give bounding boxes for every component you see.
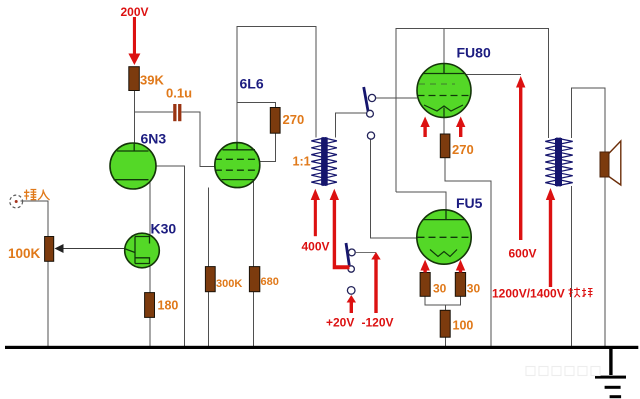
resistor R6 270 right [440,134,450,158]
svg-text:100K: 100K [8,246,41,261]
svg-text:39K: 39K [140,73,164,88]
label FU5 [456,195,483,211]
transformer T1 1:1 interstage [311,138,337,186]
input jack J1 [10,195,23,208]
switch S2 pole contact [348,266,354,272]
svg-text:K30: K30 [151,221,177,237]
resistor R8 30 right [455,273,465,297]
power arrow 400V right with red link to S2 [330,189,350,269]
power arrow 400V left [311,189,320,236]
tube V3 FU80 [417,64,471,118]
label 270 left [283,112,305,127]
resistor R9 100 [440,310,450,337]
label 30 left [433,282,447,296]
resistor R2 180 [145,293,155,318]
capacitor C1 0.1u [173,104,181,121]
label 270 right [452,142,474,157]
wire: transformer T1 secondary to switch S1 [335,113,367,138]
label 6N3 [141,131,167,147]
svg-text:100: 100 [453,319,474,333]
heater arrow FU80 left [420,117,429,138]
label 100K [8,246,41,261]
wire: 6N3 right lead down to bus [156,166,185,346]
svg-text:6L6: 6L6 [240,76,264,92]
svg-text:400V: 400V [302,240,330,254]
switch S1 top contact [368,94,375,101]
wire: rail branch to FU80 top cap [443,29,445,65]
wire: S2 contact to -120V arrow [355,251,375,253]
svg-text:200V: 200V [121,5,149,19]
switch S2 top contact [348,249,355,256]
wire: output transformer right bottom to bus [571,186,573,346]
svg-text:FU5: FU5 [456,195,483,211]
power arrow -120V [371,252,380,313]
svg-text:270: 270 [452,142,474,157]
wire: output transformer secondary to speaker and bus [572,88,605,346]
svg-text:0.1u: 0.1u [166,86,192,101]
label 1:1 [293,155,311,169]
label 39K [140,73,164,88]
label 30 right [467,282,481,296]
ground [595,349,626,398]
label 400V [302,240,330,254]
potentiometer RP1 100K [45,237,64,262]
label 600V [509,247,537,261]
svg-text:180: 180 [158,299,179,313]
svg-text:FU80: FU80 [457,45,491,61]
label 100 [453,319,474,333]
svg-text:30: 30 [467,282,481,296]
label 0.1u [166,86,192,101]
wire: FU5 cathode resistors junction [425,296,460,346]
switch S1 lower open contact [367,132,374,139]
label 180 [158,299,179,313]
wire: K30 source to 180 resistor and bus [149,265,151,346]
heater arrow FU5 right [456,260,465,273]
tube V1 6N3 [110,143,156,189]
svg-text:600V: 600V [509,247,537,261]
label 1200V/1400V转换 [492,287,593,301]
power arrow +20V [347,295,356,313]
svg-text:-120V: -120V [362,316,394,330]
label -120V [362,316,394,330]
wire: rail to FU5 top cap [396,192,446,209]
resistor R5 270 left [270,108,280,134]
switch S2 lower open contact [347,287,355,295]
label +20V [326,316,354,330]
ground bus wire [5,346,638,349]
power arrow 1200V/1400V [546,188,555,287]
wire: FU80 filament to 270 resistor (right) [443,110,445,134]
resistor R4 680 [249,267,259,292]
tube V2 6L6 [215,143,260,188]
svg-text:6N3: 6N3 [141,131,167,147]
power arrow 200V [128,17,140,65]
wire: plate node to coupling capacitor C1 [134,111,173,113]
label 300K [216,278,242,290]
wire: 100K pot bottom to ground bus [47,261,49,346]
wire: top right rail [396,29,548,193]
label K30 [151,221,177,237]
heater arrow FU5 left [420,260,429,273]
label FU80 [457,45,491,61]
wire: 300K resistor line to bus [208,188,210,346]
svg-text:300K: 300K [216,278,242,290]
wire: FU80 plate to 600V node [465,74,522,76]
speaker SP1 [600,141,621,185]
svg-text:1200V/1400V: 1200V/1400V [492,287,565,301]
svg-text:680: 680 [261,276,279,288]
svg-text:270: 270 [283,112,305,127]
tube V4 FU5 [417,209,471,264]
resistor R7 30 left [420,273,430,297]
label 200V [121,5,149,19]
svg-text:30: 30 [433,282,447,296]
wire: 6L6 plate top rail to interstage transformer [237,27,316,143]
wire: input jack to 100K pot top [21,201,49,237]
resistor R3 300K [205,267,215,292]
switch S1 pole contact [367,110,374,117]
switch S1 lever [364,87,369,113]
label 6L6 [240,76,264,92]
wire: plate branch to 270 resistor (left) [237,102,276,107]
label 输入 (input) [24,190,50,200]
wire: 270 (left) bottom to 6L6 screen grid [260,133,276,161]
svg-text:+20V: +20V [326,316,354,330]
transistor Q1 K30 [125,233,160,268]
heater arrow FU80 right [456,117,465,138]
svg-text:1:1: 1:1 [293,155,311,169]
power arrow 600V [516,76,525,240]
wire: capacitor C1 to 6L6 grid [181,112,215,166]
wire: 39K resistor bottom to 6N3 plate [133,91,135,143]
label 680 [261,276,279,288]
wire: 270 (right) bottom down and right to bus [445,158,491,346]
switch S2 lever [346,243,349,266]
wire: switch S1 lower terminal to FU5 grid [370,139,417,238]
wire: K30 gate to pot wiper [63,248,126,250]
wire: 6N3 cathode to K30 drain [149,180,151,236]
wire: switch S1 top contact to FU80 grid [376,97,417,99]
resistor R1 39K [129,67,140,91]
transformer T2 output [545,138,572,186]
watermark [526,367,600,376]
wire: 680 resistor line to bus [252,182,254,346]
